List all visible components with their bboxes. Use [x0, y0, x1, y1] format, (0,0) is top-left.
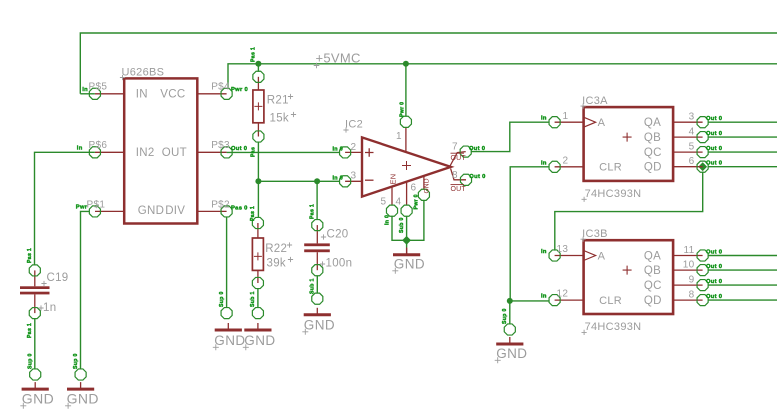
- svg-text:15k: 15k: [270, 112, 289, 124]
- wire IC3A QD output: [708, 166, 777, 168]
- ground GND (bottom left 1): [20, 382, 54, 409]
- wire IC2 pin 5 to gnd node: [392, 216, 407, 240]
- IC U1 U626BS converter box: [124, 78, 197, 223]
- wire IC3A QB output: [708, 136, 777, 138]
- wire P$2 (DIV) to ground: [226, 217, 228, 308]
- junction on IC3A QD pin: [699, 163, 706, 170]
- pin stub U1 left: [95, 210, 124, 212]
- wire IC3B QC output: [708, 284, 777, 286]
- svg-text:GND: GND: [214, 333, 245, 348]
- pin stub IC3A pin 2: [555, 166, 584, 168]
- svg-text:In 0: In 0: [333, 147, 344, 153]
- ground GND (under P$2): [213, 323, 246, 350]
- pin IC2 4: [401, 205, 412, 216]
- pin stub IC2 pin 4: [406, 182, 408, 206]
- wire IC2 OUT pin7 to IC3A A pin1: [471, 122, 549, 151]
- pin supply GND (P$2 branch): [221, 308, 232, 319]
- svg-text:IN2: IN2: [136, 147, 155, 159]
- wire R22 bottom to ground: [257, 288, 259, 308]
- svg-text:4: 4: [689, 127, 695, 138]
- svg-text:7: 7: [452, 142, 458, 153]
- wire C19 bottom to ground: [34, 318, 36, 369]
- ground GND (under C20): [302, 308, 335, 335]
- svg-text:QA: QA: [644, 251, 661, 263]
- pin C19 bottom: [29, 308, 40, 319]
- svg-text:100n: 100n: [326, 258, 353, 270]
- svg-text:5: 5: [381, 197, 387, 208]
- wire P$6 (IN2) to C19: [35, 152, 95, 265]
- svg-text:Out 0: Out 0: [706, 279, 722, 285]
- svg-text:Sup 0: Sup 0: [219, 291, 225, 307]
- junction node / C20: [314, 178, 320, 184]
- pin IC2 2 (+IN): [340, 147, 351, 158]
- svg-text:GND: GND: [138, 205, 164, 217]
- svg-text:In: In: [82, 87, 88, 93]
- svg-text:GND: GND: [496, 346, 527, 361]
- wire: net from IN pin P$5 up and across the top: [80, 33, 777, 94]
- svg-text:Pas: Pas: [251, 147, 257, 157]
- pin IC3B QC (9): [697, 280, 708, 291]
- svg-text:Out 0: Out 0: [706, 161, 722, 167]
- svg-text:9: 9: [689, 275, 695, 286]
- svg-text:P$1: P$1: [87, 199, 106, 210]
- pin stub IC3B QC: [673, 284, 703, 286]
- pin P$2 (DIV): [221, 206, 232, 217]
- wire to IC3B CLR pin12: [510, 300, 549, 302]
- svg-text:A: A: [598, 251, 606, 263]
- svg-text:5: 5: [689, 142, 695, 153]
- op-amp + input marker: [365, 148, 374, 157]
- svg-text:39k: 39k: [267, 257, 286, 269]
- wire IC3B QB output: [708, 269, 777, 271]
- svg-text:In: In: [541, 249, 547, 255]
- svg-text:C20: C20: [327, 229, 349, 241]
- svg-text:11: 11: [684, 245, 695, 256]
- pin IC3A QC (5): [697, 147, 708, 158]
- stub op-amp ground: [406, 248, 408, 255]
- svg-text:IC3A: IC3A: [582, 95, 608, 107]
- svg-text:GND: GND: [67, 390, 99, 406]
- wire node to IC2 pin 3: [258, 180, 339, 182]
- svg-text:Out 0: Out 0: [231, 146, 247, 152]
- svg-text:GND: GND: [304, 317, 335, 332]
- svg-text:In 0: In 0: [385, 215, 391, 225]
- svg-text:OUT: OUT: [451, 155, 467, 162]
- svg-text:IN: IN: [136, 88, 148, 100]
- resistor R21 15k: [253, 77, 264, 137]
- pin C20 top: [312, 220, 323, 231]
- pin P$1 (GND): [89, 206, 100, 217]
- svg-text:QB: QB: [644, 265, 661, 277]
- pin stub U1 left: [95, 93, 124, 95]
- pin P$3 (OUT): [221, 147, 232, 158]
- pin R21 bottom: [253, 131, 264, 142]
- origin cross U1: [120, 75, 125, 80]
- wire node down to R22 top: [257, 181, 259, 218]
- svg-text:QB: QB: [644, 132, 661, 144]
- svg-text:In: In: [541, 294, 547, 300]
- svg-text:Pas 1: Pas 1: [310, 204, 316, 219]
- svg-text:Sup 0: Sup 0: [502, 308, 508, 324]
- svg-text:A: A: [598, 117, 606, 129]
- pin stub IC3B QD: [673, 299, 703, 301]
- clock symbol IC3A: [584, 117, 596, 127]
- pin supply GND (C19 branch): [30, 369, 41, 380]
- svg-text:Sup 0: Sup 0: [73, 353, 79, 369]
- svg-text:Pwr: Pwr: [76, 204, 88, 210]
- pin stub IC2 pin 5 (EN): [391, 187, 393, 206]
- svg-text:In: In: [541, 160, 547, 166]
- pin supply GND (P$1 branch): [75, 369, 86, 380]
- pin stub IC2 pin 7 (OUT): [450, 152, 466, 166]
- pin stub IC3A pin 1: [555, 121, 584, 123]
- pin P$6 (IN2): [89, 147, 100, 158]
- svg-text:R21: R21: [267, 95, 289, 107]
- svg-text:6: 6: [689, 156, 695, 167]
- svg-text:In 0: In 0: [333, 176, 344, 182]
- svg-text:OUT: OUT: [162, 147, 187, 159]
- pin R21 top: [253, 71, 264, 82]
- pin stub IC3B pin 12: [555, 299, 584, 301]
- svg-text:Pwr 0: Pwr 0: [414, 194, 420, 209]
- capacitor C19 1n: [20, 270, 50, 313]
- svg-text:R22: R22: [265, 243, 287, 255]
- wire +5V to IC2 pin 1: [405, 64, 407, 117]
- pin IC2 6: [418, 189, 429, 200]
- clock symbol IC3B: [584, 251, 596, 261]
- ground GND (under R22): [243, 323, 276, 350]
- pin stub IC3A QD: [673, 166, 703, 168]
- wire +5V to R21 top pin: [257, 64, 259, 72]
- junction +5V / IC2 V+: [403, 61, 409, 67]
- pin IC2 8: [460, 174, 471, 185]
- pin IC3B QD (8): [697, 295, 708, 306]
- pin C19 top: [29, 265, 40, 276]
- svg-text:4: 4: [396, 197, 402, 208]
- svg-text:DIV: DIV: [165, 205, 185, 217]
- junction CLR net: [507, 298, 513, 304]
- svg-text:Sub 0: Sub 0: [399, 217, 405, 233]
- pin stub IC3A QA: [673, 121, 703, 123]
- svg-text:IC2: IC2: [345, 119, 363, 131]
- wire IC3B QA output: [708, 255, 777, 257]
- pin stub IC3B QB: [673, 269, 703, 271]
- wire IC3A CLR down to ground: [510, 167, 549, 324]
- pin IC3A QB (4): [697, 132, 708, 143]
- pin IC3A 1: [549, 117, 560, 128]
- pin stub IC2 pin 1 (V+): [405, 127, 407, 151]
- svg-text:8: 8: [452, 170, 458, 181]
- wire IC2 pin 6 to gnd node: [407, 200, 424, 240]
- svg-text:Pwr 0: Pwr 0: [231, 87, 248, 93]
- pin stub U1 right: [197, 210, 226, 212]
- pin C20 bottom: [312, 265, 323, 276]
- svg-text:Out 0: Out 0: [706, 146, 722, 152]
- pin stub IC3B QA: [673, 255, 703, 257]
- svg-text:P$5: P$5: [89, 82, 108, 93]
- svg-text:C19: C19: [47, 272, 69, 284]
- ground GND (under IC2): [392, 248, 425, 274]
- pin IC3A QD (6): [697, 161, 708, 172]
- pin stub IC2 pin 2: [345, 151, 362, 153]
- svg-text:Out 0: Out 0: [706, 294, 722, 300]
- pin stub IC2 pin 6 (GND): [423, 176, 425, 190]
- ground GND (under IC3B CLR): [495, 337, 528, 363]
- svg-text:P$3: P$3: [211, 140, 230, 151]
- svg-text:1: 1: [396, 131, 402, 142]
- wire IC3A QD to IC3B A pin13: [555, 172, 703, 251]
- svg-text:12: 12: [557, 289, 569, 300]
- wire IC3B QD output: [708, 299, 777, 301]
- svg-text:Pas 1: Pas 1: [250, 206, 256, 221]
- svg-text:U626BS: U626BS: [122, 67, 165, 79]
- svg-text:Pas 0: Pas 0: [231, 206, 248, 212]
- pin stub IC3A QB: [673, 136, 703, 138]
- svg-text:2: 2: [351, 142, 357, 153]
- origin cross IC3B: [623, 266, 632, 275]
- pin stub IC2 pin 3: [345, 180, 362, 182]
- wire P$1 (GND pin) down to ground: [81, 211, 90, 368]
- svg-text:2: 2: [563, 155, 569, 166]
- ground GND (bottom left 2): [65, 382, 99, 409]
- pin R22 bottom: [252, 277, 263, 288]
- svg-text:P$2: P$2: [211, 199, 230, 210]
- svg-text:3: 3: [351, 171, 357, 182]
- svg-text:P$4: P$4: [211, 82, 230, 93]
- pin IC3B 13: [549, 250, 560, 261]
- pin stub IC3A QC: [673, 151, 703, 153]
- svg-text:QD: QD: [644, 162, 662, 174]
- svg-text:74HC393N: 74HC393N: [585, 321, 642, 333]
- svg-text:3: 3: [689, 112, 695, 123]
- svg-text:CLR: CLR: [599, 162, 622, 174]
- svg-text:QA: QA: [644, 117, 661, 129]
- op-amp IC2 comparator triangle: [362, 137, 451, 196]
- pin stub U1 right: [197, 93, 226, 95]
- svg-text:Pas 1: Pas 1: [27, 248, 33, 263]
- svg-text:GND: GND: [424, 178, 431, 193]
- pin supply GND (C20 branch): [312, 293, 323, 304]
- junction node / R22: [255, 178, 261, 184]
- pin R22 top: [252, 217, 263, 228]
- pin IC2 1: [400, 116, 411, 127]
- pin IC3B 12: [549, 295, 560, 306]
- pin stub U1 right: [197, 151, 226, 153]
- capacitor C20 100n: [304, 225, 330, 270]
- svg-text:EN: EN: [389, 173, 398, 184]
- IC IC3A 74HC393N counter box: [584, 107, 674, 181]
- svg-text:Sub 1: Sub 1: [250, 291, 256, 307]
- pin stub IC3B pin 13: [555, 255, 584, 257]
- pin supply GND (CLR branch): [504, 324, 515, 335]
- svg-text:+5VMC: +5VMC: [316, 50, 361, 65]
- svg-text:1n: 1n: [43, 302, 56, 314]
- pin stub U1 left: [95, 151, 124, 153]
- svg-text:In: In: [541, 116, 547, 122]
- pin IC3B QB (10): [697, 265, 708, 276]
- pin IC2 3 (-IN): [340, 176, 351, 187]
- op-amp - input marker: [365, 179, 374, 181]
- svg-text:Sub 1: Sub 1: [310, 278, 316, 294]
- svg-text:Pas 1: Pas 1: [251, 47, 257, 62]
- svg-text:QC: QC: [644, 280, 662, 292]
- svg-text:OUT: OUT: [451, 186, 467, 193]
- wire: +5V net across (second horizontal): [228, 64, 777, 89]
- pin IC2 7: [460, 146, 471, 157]
- pin P$5 (IN): [89, 88, 100, 99]
- pin IC3A 2: [549, 161, 560, 172]
- svg-text:GND: GND: [394, 256, 425, 271]
- origin cross IC3A: [623, 133, 632, 142]
- pin stub IC2 pin 8 (/OUT): [451, 169, 466, 180]
- wire IC3A QC output: [708, 151, 777, 153]
- svg-text:8: 8: [689, 290, 695, 301]
- pin IC3B QA (11): [697, 250, 708, 261]
- svg-text:P$6: P$6: [89, 140, 108, 151]
- svg-text:6: 6: [411, 183, 417, 194]
- svg-text:GND: GND: [244, 333, 275, 348]
- svg-text:Out 0: Out 0: [706, 249, 722, 255]
- svg-text:IC3B: IC3B: [582, 228, 608, 240]
- pin IC2 5: [386, 205, 397, 216]
- svg-text:10: 10: [683, 260, 695, 271]
- svg-text:Out 0: Out 0: [706, 116, 722, 122]
- svg-text:Out 0: Out 0: [469, 146, 485, 152]
- svg-text:Out 0: Out 0: [706, 131, 722, 137]
- junction IC2 ground node: [403, 237, 410, 244]
- svg-text:Sup 0: Sup 0: [28, 353, 34, 369]
- wire P$3 (OUT) to IC2 pin 2: [227, 151, 340, 153]
- svg-text:QD: QD: [644, 295, 662, 307]
- svg-text:In: In: [77, 145, 83, 151]
- svg-text:Pwr 0: Pwr 0: [399, 102, 405, 117]
- svg-text:1: 1: [563, 111, 569, 122]
- wire C20 bottom to ground: [316, 276, 318, 294]
- op-amp origin cross: [402, 161, 411, 170]
- resistor R22 39k: [252, 223, 263, 283]
- svg-text:Out 0: Out 0: [706, 264, 722, 270]
- wire IC2 pin 4 to gnd node: [406, 216, 408, 248]
- wire IC3A QA output: [708, 121, 777, 123]
- svg-text:GND: GND: [22, 390, 54, 406]
- pin IC3A QA (3): [697, 117, 708, 128]
- svg-text:74HC393N: 74HC393N: [585, 188, 642, 200]
- svg-text:QC: QC: [644, 147, 662, 159]
- wire R21 bottom to node: [257, 142, 259, 182]
- svg-text:Pas 1: Pas 1: [27, 323, 33, 338]
- IC IC3B 74HC393N counter box: [584, 240, 674, 314]
- svg-text:VCC: VCC: [160, 88, 185, 100]
- svg-text:13: 13: [557, 244, 569, 255]
- wire P$5 to corner: [80, 93, 95, 95]
- pin P$4 (VCC): [221, 88, 232, 99]
- wire node down to C20 top: [316, 181, 318, 220]
- junction +5V / R21: [255, 61, 261, 67]
- svg-text:CLR: CLR: [599, 295, 622, 307]
- pin supply GND (R22 branch): [252, 308, 263, 319]
- svg-text:Out 0: Out 0: [469, 174, 485, 180]
